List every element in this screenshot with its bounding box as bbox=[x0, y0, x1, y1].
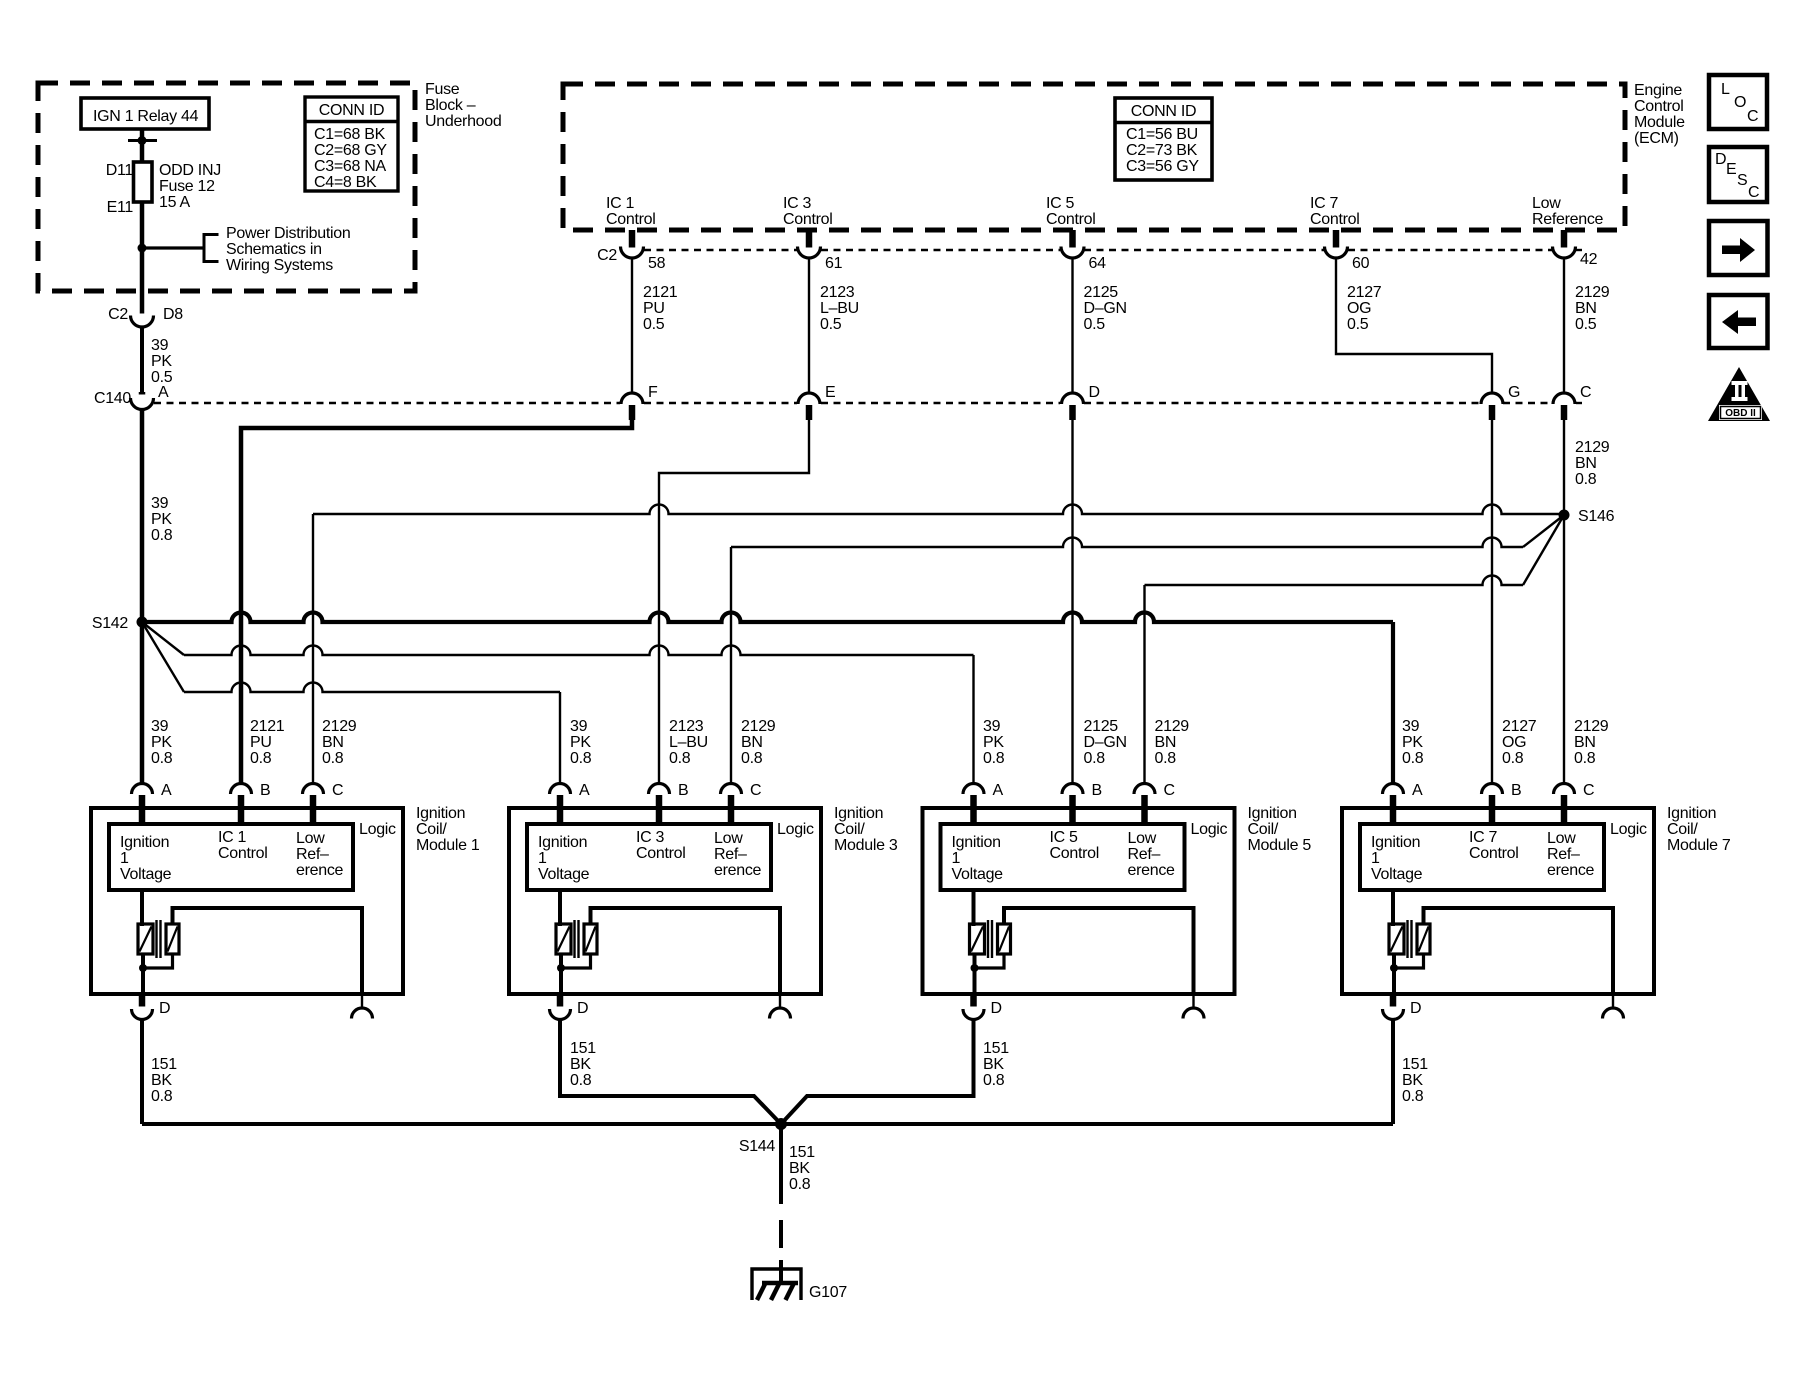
connector C2 pin D8 bbox=[131, 316, 154, 328]
svg-text:C2=68 GY: C2=68 GY bbox=[314, 142, 387, 159]
svg-text:0.8: 0.8 bbox=[151, 750, 173, 767]
svg-text:D: D bbox=[991, 1000, 1002, 1017]
svg-text:S: S bbox=[1737, 172, 1747, 189]
svg-text:Module 3: Module 3 bbox=[834, 837, 898, 854]
svg-text:1: 1 bbox=[952, 850, 961, 867]
svg-text:15 A: 15 A bbox=[159, 194, 190, 211]
junction power distribution tap bbox=[138, 244, 147, 253]
wire low reference coil1-C to S146 bbox=[312, 514, 314, 784]
fuse block - underhood dashed enclosure bbox=[38, 83, 415, 291]
module 3 secondary output pin bbox=[779, 994, 781, 1008]
svg-text:B: B bbox=[260, 782, 270, 799]
svg-text:Engine: Engine bbox=[1634, 82, 1682, 99]
svg-text:Power Distribution: Power Distribution bbox=[226, 225, 350, 242]
svg-text:Reference: Reference bbox=[1532, 211, 1604, 228]
connector C140 pin C bbox=[1553, 393, 1575, 404]
svg-text:151: 151 bbox=[1402, 1056, 1428, 1073]
svg-text:0.5: 0.5 bbox=[1347, 316, 1369, 333]
svg-text:Ref–: Ref– bbox=[1128, 846, 1161, 863]
svg-text:BK: BK bbox=[1402, 1072, 1423, 1089]
svg-text:IC 1: IC 1 bbox=[606, 195, 635, 212]
svg-text:erence: erence bbox=[714, 862, 762, 879]
svg-text:C: C bbox=[750, 782, 761, 799]
svg-text:Logic: Logic bbox=[1191, 821, 1228, 838]
svg-text:O: O bbox=[1734, 94, 1746, 111]
conn id table (ECM) bbox=[1115, 98, 1212, 180]
svg-text:2129: 2129 bbox=[322, 718, 357, 735]
wire 39 PK 0.8 (C140-A to S142) bbox=[140, 409, 145, 623]
svg-text:2129: 2129 bbox=[1575, 439, 1610, 456]
wire 2129 BN 0.5 (Low Reference to C140-C) bbox=[1563, 258, 1565, 393]
svg-text:L–BU: L–BU bbox=[669, 734, 708, 751]
svg-text:151: 151 bbox=[789, 1144, 815, 1161]
svg-text:0.5: 0.5 bbox=[820, 316, 842, 333]
svg-text:Logic: Logic bbox=[1610, 821, 1647, 838]
ECM pin stub 42 bbox=[1561, 230, 1568, 248]
svg-text:A: A bbox=[158, 384, 169, 401]
wire 39 PK 0.5 bbox=[140, 327, 144, 394]
svg-text:Control: Control bbox=[606, 211, 655, 228]
wire 39 PK 0.8 S142 branch 1 (to coil7 A) bbox=[142, 613, 1393, 623]
svg-text:PU: PU bbox=[250, 734, 272, 751]
module 5 primary return wire bbox=[973, 954, 977, 994]
svg-text:OG: OG bbox=[1347, 300, 1371, 317]
svg-text:64: 64 bbox=[1089, 255, 1107, 272]
connector C2 (ECM) pin 61 bbox=[798, 247, 821, 259]
module 3 secondary output wire bbox=[591, 908, 781, 994]
svg-text:S146: S146 bbox=[1578, 508, 1615, 525]
svg-text:Ref–: Ref– bbox=[1547, 846, 1580, 863]
svg-text:Ignition: Ignition bbox=[1248, 805, 1297, 822]
svg-text:2127: 2127 bbox=[1347, 284, 1382, 301]
wire low reference coil5-C to S146 bbox=[1143, 585, 1145, 784]
svg-text:Coil/: Coil/ bbox=[416, 821, 447, 838]
svg-text:0.8: 0.8 bbox=[741, 750, 763, 767]
svg-text:C3=56 GY: C3=56 GY bbox=[1126, 158, 1199, 175]
svg-text:0.8: 0.8 bbox=[1402, 750, 1424, 767]
svg-text:CONN ID: CONN ID bbox=[1131, 103, 1196, 120]
svg-text:B: B bbox=[678, 782, 688, 799]
svg-text:0.8: 0.8 bbox=[1402, 1088, 1424, 1105]
svg-text:IC 3: IC 3 bbox=[783, 195, 812, 212]
svg-text:A: A bbox=[993, 782, 1004, 799]
svg-text:0.8: 0.8 bbox=[983, 1072, 1005, 1089]
ignition coil/module 3 pins A B C bbox=[550, 784, 571, 795]
wire 151 BK 0.8 (coil1 D to S144) bbox=[140, 1020, 144, 1125]
wire 2125 D-GN 0.8 (C140-D to coil5 B) bbox=[1071, 420, 1073, 784]
wire 2123 L-BU 0.8 (C140-E to coil3 B) bbox=[659, 420, 809, 784]
module 7 secondary output wire bbox=[1424, 908, 1614, 994]
connector C140 pin F bbox=[621, 393, 643, 404]
svg-text:42: 42 bbox=[1580, 251, 1598, 268]
wire 151 BK 0.8 (coil3 D to S144) bbox=[560, 1020, 781, 1125]
svg-text:Logic: Logic bbox=[359, 821, 396, 838]
svg-text:G: G bbox=[1508, 384, 1520, 401]
svg-text:CONN ID: CONN ID bbox=[319, 102, 384, 119]
svg-text:BN: BN bbox=[1574, 734, 1596, 751]
connector C140 dashed line bbox=[154, 402, 620, 404]
svg-text:Voltage: Voltage bbox=[952, 866, 1004, 883]
svg-text:Ignition: Ignition bbox=[952, 834, 1001, 851]
svg-text:erence: erence bbox=[1547, 862, 1595, 879]
svg-text:Ignition: Ignition bbox=[1371, 834, 1420, 851]
engine control module (ECM) dashed enclosure bbox=[563, 84, 1625, 230]
svg-text:Control: Control bbox=[1469, 845, 1518, 862]
svg-text:D–GN: D–GN bbox=[1084, 300, 1127, 317]
svg-text:BN: BN bbox=[1155, 734, 1177, 751]
LOC icon bbox=[1709, 75, 1767, 129]
ignition coil/module 7 outer box bbox=[1342, 808, 1654, 994]
svg-text:0.5: 0.5 bbox=[1084, 316, 1106, 333]
svg-text:(ECM): (ECM) bbox=[1634, 130, 1679, 147]
svg-text:0.8: 0.8 bbox=[570, 1072, 592, 1089]
splice S146 bbox=[1559, 510, 1570, 521]
svg-text:Coil/: Coil/ bbox=[834, 821, 865, 838]
svg-text:OBD II: OBD II bbox=[1725, 408, 1756, 419]
svg-text:D: D bbox=[1715, 151, 1726, 168]
svg-text:ODD INJ: ODD INJ bbox=[159, 162, 221, 179]
power distribution reference bracket bbox=[204, 235, 219, 262]
module 5 coil primary winding bbox=[972, 890, 976, 926]
svg-text:PK: PK bbox=[1402, 734, 1423, 751]
module 7 primary return wire bbox=[1392, 954, 1396, 994]
svg-text:PU: PU bbox=[643, 300, 665, 317]
svg-text:Ignition: Ignition bbox=[120, 834, 169, 851]
ground G107 bbox=[752, 1269, 801, 1300]
module 3 coil primary winding bbox=[558, 890, 562, 926]
svg-text:D: D bbox=[1410, 1000, 1421, 1017]
svg-text:Control: Control bbox=[1046, 211, 1095, 228]
svg-text:C2: C2 bbox=[108, 306, 128, 323]
connector C2 (ECM) pin 42 bbox=[1553, 247, 1576, 259]
svg-text:C4=8 BK: C4=8 BK bbox=[314, 174, 377, 191]
wire 151 BK 0.8 bus bbox=[142, 1122, 1393, 1126]
svg-text:Fuse 12: Fuse 12 bbox=[159, 178, 215, 195]
wire 39 PK 0.8 S142 branch 2 (to coil5 A) bbox=[142, 622, 184, 655]
svg-text:C: C bbox=[1580, 384, 1591, 401]
ignition coil/module 3 logic input box bbox=[527, 824, 771, 890]
svg-text:Control: Control bbox=[1050, 845, 1099, 862]
svg-text:BK: BK bbox=[570, 1056, 591, 1073]
connector C140 pin D bbox=[1062, 393, 1084, 404]
module 5 secondary output pin bbox=[1192, 994, 1194, 1008]
wire 2121 PU 0.5 (IC1 to C140-F) bbox=[631, 258, 633, 393]
ignition coil/module 1 pins A B C bbox=[132, 784, 153, 795]
svg-text:Control: Control bbox=[1634, 98, 1683, 115]
svg-text:0.8: 0.8 bbox=[570, 750, 592, 767]
svg-text:L–BU: L–BU bbox=[820, 300, 859, 317]
svg-text:Voltage: Voltage bbox=[1371, 866, 1423, 883]
svg-text:Wiring Systems: Wiring Systems bbox=[226, 257, 333, 274]
svg-text:erence: erence bbox=[296, 862, 344, 879]
module 1 secondary ground tie bbox=[143, 954, 173, 968]
ignition coil/module 1 outer box bbox=[91, 808, 403, 994]
svg-text:Ref–: Ref– bbox=[714, 846, 747, 863]
svg-text:0.8: 0.8 bbox=[983, 750, 1005, 767]
svg-text:39: 39 bbox=[570, 718, 588, 735]
module 3 secondary ground tie bbox=[561, 954, 591, 968]
svg-text:E11: E11 bbox=[107, 199, 134, 216]
svg-text:151: 151 bbox=[151, 1056, 177, 1073]
svg-text:39: 39 bbox=[1402, 718, 1420, 735]
module 3 pin D bbox=[557, 994, 564, 1007]
wire 2127 OG 0.5 (IC7 jog to C140-G) bbox=[1336, 258, 1492, 393]
module 7 secondary ground tie bbox=[1394, 954, 1424, 968]
conn id table (fuse block) bbox=[305, 97, 398, 191]
svg-text:Control: Control bbox=[783, 211, 832, 228]
module 7 coil primary winding bbox=[1391, 890, 1395, 926]
ignition coil/module 7 logic input box bbox=[1360, 824, 1604, 890]
splice S144 bbox=[775, 1118, 787, 1130]
svg-text:Module: Module bbox=[1634, 114, 1685, 131]
connector C2 (ECM) pin 58 bbox=[621, 247, 644, 259]
module 1 secondary output wire bbox=[173, 908, 363, 994]
svg-text:Voltage: Voltage bbox=[538, 866, 590, 883]
svg-text:D: D bbox=[159, 1000, 170, 1017]
svg-text:Coil/: Coil/ bbox=[1248, 821, 1279, 838]
svg-text:D–GN: D–GN bbox=[1084, 734, 1127, 751]
svg-text:39: 39 bbox=[151, 495, 169, 512]
svg-text:2127: 2127 bbox=[1502, 718, 1537, 735]
svg-text:Block –: Block – bbox=[425, 97, 476, 114]
back arrow icon bbox=[1709, 295, 1768, 348]
svg-text:erence: erence bbox=[1128, 862, 1176, 879]
wire low reference coil3-C to S146 bbox=[730, 547, 732, 784]
svg-text:C: C bbox=[1164, 782, 1175, 799]
ECM pin stub 60 bbox=[1333, 230, 1340, 248]
svg-text:0.8: 0.8 bbox=[1575, 471, 1597, 488]
svg-text:BN: BN bbox=[1575, 300, 1597, 317]
module 3 internal junction bbox=[557, 964, 565, 972]
svg-text:C1=68 BK: C1=68 BK bbox=[314, 126, 386, 143]
svg-text:Fuse: Fuse bbox=[425, 81, 460, 98]
svg-text:Logic: Logic bbox=[777, 821, 814, 838]
svg-text:2125: 2125 bbox=[1084, 718, 1119, 735]
svg-text:Voltage: Voltage bbox=[120, 866, 172, 883]
svg-text:Ignition: Ignition bbox=[416, 805, 465, 822]
svg-text:BN: BN bbox=[1575, 455, 1597, 472]
module 5 coil secondary winding bbox=[998, 924, 1011, 954]
svg-text:L: L bbox=[1721, 81, 1730, 98]
wire fuse to C2-D8 bbox=[140, 202, 145, 314]
wire 2125 D-GN 0.5 (IC5 to C140-D) bbox=[1071, 258, 1073, 393]
connector C140 pin G bbox=[1481, 393, 1503, 404]
relay K: IGN 1 Relay 44 bbox=[81, 98, 209, 129]
module 5 secondary output wire bbox=[1004, 908, 1194, 994]
svg-text:A: A bbox=[1412, 782, 1423, 799]
wire 39 PK 0.8 S142 branch 3 (to coil3 A) bbox=[142, 622, 184, 692]
forward arrow icon bbox=[1709, 221, 1768, 275]
svg-text:0.8: 0.8 bbox=[250, 750, 272, 767]
svg-text:0.8: 0.8 bbox=[151, 1088, 173, 1105]
svg-text:E: E bbox=[1726, 161, 1736, 178]
module 5 coil core bbox=[987, 920, 989, 958]
ECM pin stub 58 bbox=[629, 230, 636, 248]
module 1 coil primary winding bbox=[140, 890, 144, 926]
svg-text:D: D bbox=[577, 1000, 588, 1017]
connector C2 (ECM) pin 64 bbox=[1061, 247, 1084, 259]
svg-text:BN: BN bbox=[322, 734, 344, 751]
svg-text:A: A bbox=[161, 782, 172, 799]
svg-text:Low: Low bbox=[296, 830, 325, 847]
svg-text:Ignition: Ignition bbox=[834, 805, 883, 822]
wire 2129 BN 0.8 (C140-C through S146 to coil7 C) bbox=[1563, 420, 1565, 784]
svg-text:2129: 2129 bbox=[1575, 284, 1610, 301]
svg-text:PK: PK bbox=[151, 511, 172, 528]
wire 39 PK 0.8 (S142 to coil1 A) bbox=[140, 622, 145, 784]
svg-text:0.8: 0.8 bbox=[322, 750, 344, 767]
svg-text:S144: S144 bbox=[739, 1138, 776, 1155]
junction relay output bbox=[138, 136, 147, 145]
svg-text:0.8: 0.8 bbox=[1574, 750, 1596, 767]
svg-text:E: E bbox=[825, 384, 835, 401]
module 3 primary return wire bbox=[559, 954, 563, 994]
svg-text:PK: PK bbox=[151, 353, 172, 370]
svg-text:Ref–: Ref– bbox=[296, 846, 329, 863]
svg-text:0.8: 0.8 bbox=[789, 1176, 811, 1193]
wire 2123 L-BU 0.5 (IC3 to C140-E) bbox=[808, 258, 810, 393]
svg-text:Ignition: Ignition bbox=[1667, 805, 1716, 822]
wire 151 BK 0.8 (S144 to G107) bbox=[779, 1124, 783, 1204]
svg-text:2129: 2129 bbox=[741, 718, 776, 735]
svg-text:39: 39 bbox=[983, 718, 1001, 735]
svg-text:IC 1: IC 1 bbox=[218, 829, 247, 846]
svg-text:B: B bbox=[1092, 782, 1102, 799]
svg-text:C: C bbox=[1583, 782, 1594, 799]
module 1 coil core bbox=[155, 920, 157, 958]
svg-text:39: 39 bbox=[151, 337, 169, 354]
svg-text:1: 1 bbox=[1371, 850, 1380, 867]
OBD II icon bbox=[1708, 367, 1770, 421]
svg-text:2121: 2121 bbox=[643, 284, 678, 301]
svg-text:2129: 2129 bbox=[1574, 718, 1609, 735]
ignition coil/module 5 pins A B C bbox=[963, 784, 984, 795]
connector C2 (ECM) pin 60 bbox=[1325, 247, 1348, 259]
svg-text:A: A bbox=[579, 782, 590, 799]
module 5 pin D bbox=[970, 994, 977, 1007]
module 1 coil secondary winding bbox=[166, 924, 179, 954]
module 1 pin D bbox=[139, 994, 146, 1007]
svg-text:Module 5: Module 5 bbox=[1248, 837, 1312, 854]
svg-text:Ignition: Ignition bbox=[538, 834, 587, 851]
module 7 coil core bbox=[1406, 920, 1408, 958]
svg-text:OG: OG bbox=[1502, 734, 1526, 751]
svg-text:D: D bbox=[1089, 384, 1100, 401]
svg-text:Control: Control bbox=[636, 845, 685, 862]
svg-text:D11: D11 bbox=[106, 162, 134, 179]
svg-text:2129: 2129 bbox=[1155, 718, 1190, 735]
ECM C2 dotted connector line bbox=[644, 249, 797, 251]
svg-text:IC 7: IC 7 bbox=[1310, 195, 1339, 212]
svg-text:F: F bbox=[648, 384, 658, 401]
svg-text:BK: BK bbox=[789, 1160, 810, 1177]
svg-text:60: 60 bbox=[1352, 255, 1370, 272]
svg-text:2125: 2125 bbox=[1084, 284, 1119, 301]
svg-text:IC 7: IC 7 bbox=[1469, 829, 1498, 846]
module 1 internal junction bbox=[139, 964, 147, 972]
ignition coil/module 3 outer box bbox=[509, 808, 821, 994]
ignition coil/module 5 outer box bbox=[923, 808, 1235, 994]
module 7 coil secondary winding bbox=[1417, 924, 1430, 954]
svg-text:C1=56 BU: C1=56 BU bbox=[1126, 126, 1198, 143]
svg-text:2123: 2123 bbox=[669, 718, 704, 735]
svg-text:Module 7: Module 7 bbox=[1667, 837, 1731, 854]
svg-text:0.8: 0.8 bbox=[669, 750, 691, 767]
svg-text:0.8: 0.8 bbox=[1502, 750, 1524, 767]
svg-text:IGN 1 Relay 44: IGN 1 Relay 44 bbox=[93, 108, 199, 125]
svg-text:IC 5: IC 5 bbox=[1046, 195, 1075, 212]
fuse F12: ODD INJ Fuse 12 15 A bbox=[134, 162, 153, 202]
svg-text:C: C bbox=[332, 782, 343, 799]
wire 2127 OG 0.8 (C140-G to coil7 B) bbox=[1491, 420, 1493, 784]
svg-text:0.8: 0.8 bbox=[1155, 750, 1177, 767]
module 3 coil core bbox=[573, 920, 575, 958]
svg-text:C2=73 BK: C2=73 BK bbox=[1126, 142, 1198, 159]
svg-text:151: 151 bbox=[983, 1040, 1009, 1057]
svg-text:C140: C140 bbox=[94, 390, 131, 407]
ignition coil/module 7 pins A B C bbox=[1383, 784, 1404, 795]
svg-text:PK: PK bbox=[983, 734, 1004, 751]
svg-text:S142: S142 bbox=[92, 615, 129, 632]
svg-text:Coil/: Coil/ bbox=[1667, 821, 1698, 838]
connector C140 pin E bbox=[798, 393, 820, 404]
svg-text:D8: D8 bbox=[163, 306, 183, 323]
svg-text:1: 1 bbox=[538, 850, 547, 867]
ignition coil/module 1 logic input box bbox=[109, 824, 353, 890]
module 3 coil secondary winding bbox=[584, 924, 597, 954]
svg-text:0.8: 0.8 bbox=[1084, 750, 1106, 767]
svg-text:Module 1: Module 1 bbox=[416, 837, 480, 854]
svg-text:Low: Low bbox=[1128, 830, 1157, 847]
svg-text:39: 39 bbox=[151, 718, 169, 735]
relay output tick bbox=[128, 139, 157, 142]
module 7 internal junction bbox=[1390, 964, 1398, 972]
wire to power distribution bracket bbox=[142, 246, 204, 249]
svg-text:IC 5: IC 5 bbox=[1050, 829, 1079, 846]
wire relay output bbox=[140, 129, 145, 162]
ECM pin stub 64 bbox=[1069, 230, 1076, 248]
wire 151 BK 0.8 (coil5 D to S144) bbox=[781, 1020, 974, 1125]
module 5 secondary ground tie bbox=[975, 954, 1005, 968]
svg-text:Control: Control bbox=[1310, 211, 1359, 228]
splice S142 bbox=[137, 617, 148, 628]
svg-text:2121: 2121 bbox=[250, 718, 285, 735]
svg-text:C: C bbox=[1748, 184, 1759, 201]
svg-text:Underhood: Underhood bbox=[425, 113, 501, 130]
module 5 internal junction bbox=[971, 964, 979, 972]
DESC icon bbox=[1709, 147, 1767, 202]
svg-text:BK: BK bbox=[983, 1056, 1004, 1073]
svg-text:0.5: 0.5 bbox=[1575, 316, 1597, 333]
svg-text:Schematics in: Schematics in bbox=[226, 241, 322, 258]
svg-text:Low: Low bbox=[1547, 830, 1576, 847]
svg-text:B: B bbox=[1511, 782, 1521, 799]
svg-text:G107: G107 bbox=[809, 1284, 847, 1301]
ECM pin stub 61 bbox=[806, 230, 813, 248]
svg-text:1: 1 bbox=[120, 850, 129, 867]
svg-text:BN: BN bbox=[741, 734, 763, 751]
svg-text:BK: BK bbox=[151, 1072, 172, 1089]
svg-text:151: 151 bbox=[570, 1040, 596, 1057]
wire 151 BK 0.8 (coil7 D to S144) bbox=[1391, 1020, 1395, 1125]
svg-text:IC 3: IC 3 bbox=[636, 829, 665, 846]
connector C140 pin A bbox=[131, 398, 154, 410]
svg-text:0.8: 0.8 bbox=[151, 527, 173, 544]
svg-text:C: C bbox=[1747, 108, 1758, 125]
ignition coil/module 5 logic input box bbox=[941, 824, 1185, 890]
module 7 pin D bbox=[1390, 994, 1397, 1007]
svg-text:58: 58 bbox=[648, 255, 666, 272]
